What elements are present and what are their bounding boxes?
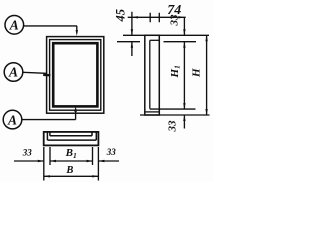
svg-text:33: 33 <box>167 120 179 133</box>
svg-text:A: A <box>8 65 18 80</box>
svg-text:H: H <box>190 68 202 78</box>
svg-text:33: 33 <box>168 14 180 27</box>
svg-text:A: A <box>7 112 17 127</box>
svg-text:33: 33 <box>106 147 117 157</box>
svg-text:B: B <box>65 165 73 176</box>
svg-text:33: 33 <box>22 147 33 157</box>
svg-text:45: 45 <box>114 9 128 22</box>
svg-text:A: A <box>9 18 19 33</box>
